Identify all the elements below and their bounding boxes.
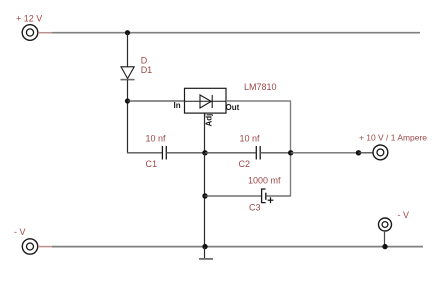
svg-text:Adj: Adj [204, 114, 213, 127]
svg-text:C3: C3 [249, 203, 261, 213]
wire Adj pin vertical [204, 113, 206, 153]
pin of +10V terminal [359, 152, 374, 154]
junction node C [202, 193, 207, 198]
wire In node to regulator [128, 100, 185, 102]
junction -V right [382, 244, 387, 249]
junction node B [288, 150, 293, 155]
terminal -V left [22, 239, 37, 254]
wire Out horizontal [226, 100, 291, 102]
junction output node [356, 150, 361, 155]
wire C1 to node A [166, 152, 205, 154]
wire C2 to node B [260, 152, 291, 154]
svg-text:C2: C2 [239, 159, 251, 169]
svg-text:+ 12 V: + 12 V [16, 14, 42, 24]
svg-text:10 nf: 10 nf [146, 134, 167, 144]
svg-text:+ 10 V / 1 Ampere: + 10 V / 1 Ampere [359, 134, 428, 143]
terminal +12V [22, 25, 38, 41]
svg-text:- V: - V [398, 210, 410, 220]
wire C3 to node B corner [266, 195, 291, 197]
svg-text:D: D [141, 56, 148, 66]
wire node A down to node C [204, 153, 206, 247]
op-amp U1 regulator LM7810 box [185, 88, 227, 113]
capacitor C2 [256, 146, 260, 160]
svg-text:In: In [174, 101, 181, 110]
wire top rail [52, 32, 420, 34]
wire D1 anode [127, 33, 129, 67]
regulator internal through line [185, 100, 227, 102]
pin of +12V terminal [38, 32, 52, 34]
svg-text:C1: C1 [146, 159, 158, 169]
wire node B to output junction [291, 152, 359, 154]
wire node A to C2 [205, 152, 256, 154]
junction top of D1 branch [125, 30, 130, 35]
svg-text:1000 mf: 1000 mf [248, 176, 281, 186]
wire mid rail to C1 [127, 152, 162, 154]
junction node In [125, 98, 130, 103]
capacitor C1 [162, 146, 166, 160]
wire Out vertical down to C3 row [290, 101, 292, 196]
wire node C to C3 [205, 195, 262, 197]
terminal +10V [373, 145, 388, 160]
junction ground node [202, 244, 207, 249]
svg-text:LM7810: LM7810 [244, 82, 277, 92]
regulator internal diode [200, 95, 212, 108]
svg-text:10 nf: 10 nf [240, 134, 261, 144]
svg-text:Out: Out [226, 103, 240, 112]
junction node A [202, 150, 207, 155]
svg-text:- V: - V [14, 227, 26, 237]
wire D1 cathode to mid rail [127, 80, 129, 154]
ground [199, 247, 213, 259]
wire bottom rail [52, 246, 423, 248]
svg-text:D1: D1 [141, 65, 153, 75]
terminal -V right [379, 218, 392, 231]
capacitor C3 electrolytic [262, 189, 274, 203]
pin of -V right terminal [384, 231, 386, 247]
diode D1 [121, 67, 135, 80]
pin of -V left terminal [38, 246, 52, 248]
